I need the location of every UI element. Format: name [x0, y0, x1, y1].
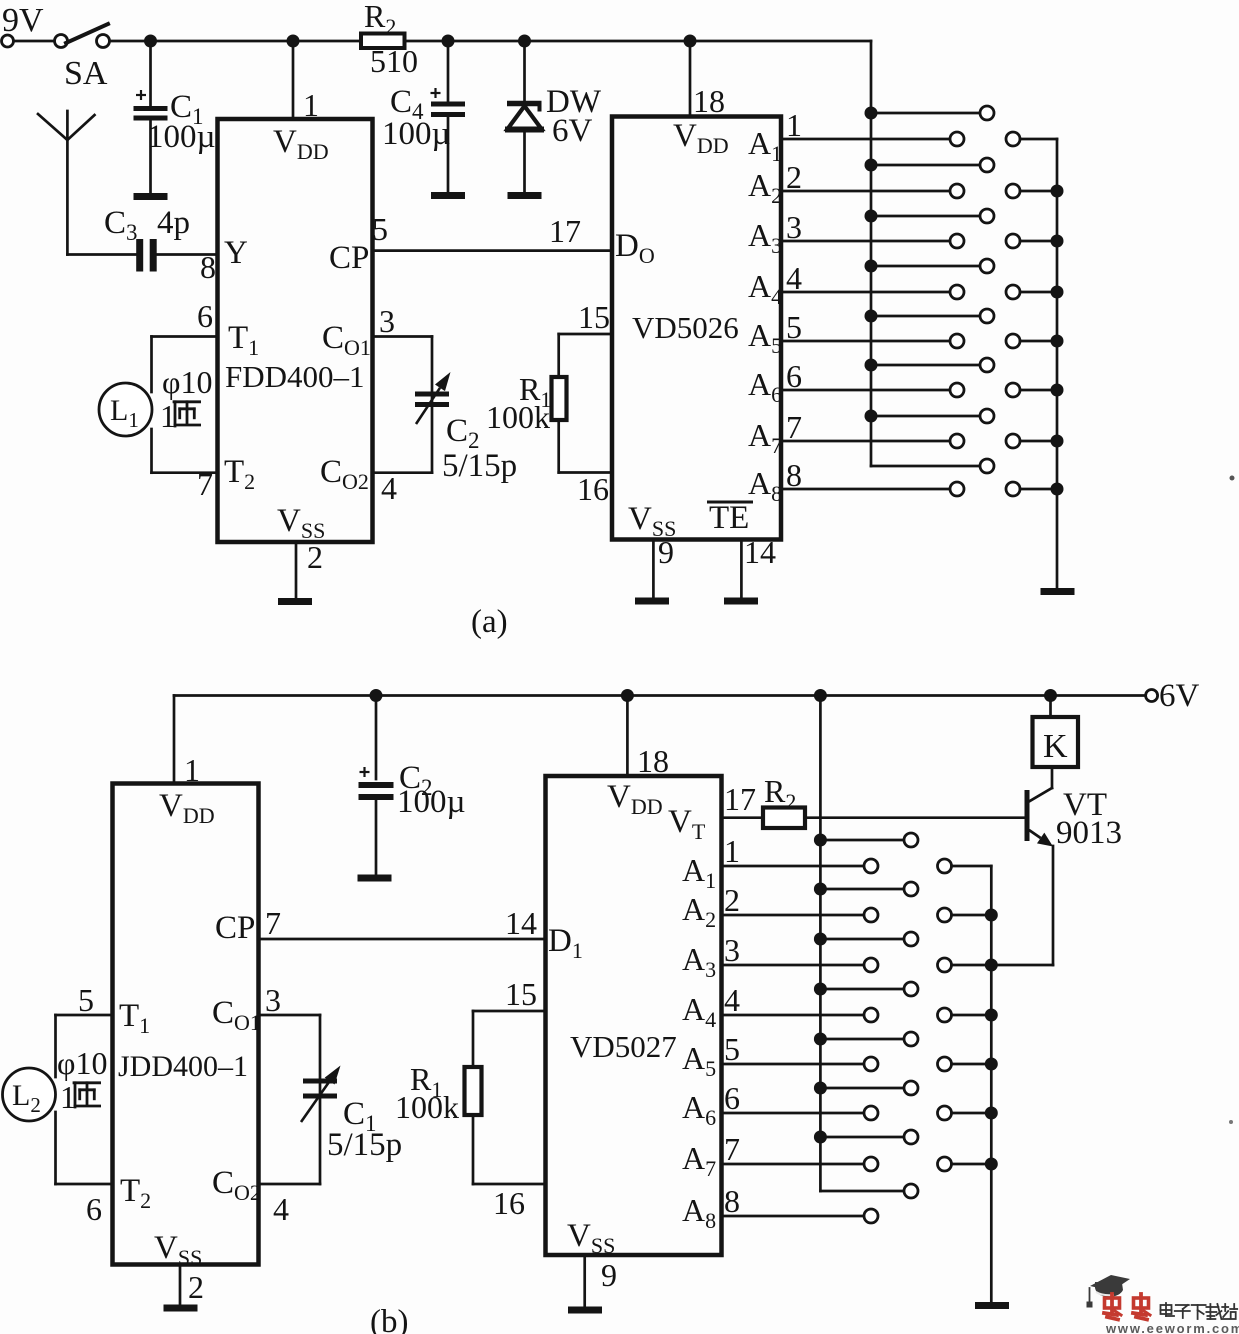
svg-text:8: 8 — [200, 249, 216, 285]
svg-text:6: 6 — [86, 1191, 102, 1227]
svg-text:6V: 6V — [1159, 678, 1200, 714]
svg-text:VD5027: VD5027 — [570, 1029, 677, 1064]
svg-text:2: 2 — [786, 159, 802, 195]
svg-text:(a): (a) — [471, 604, 508, 640]
svg-text:www.eeworm.com: www.eeworm.com — [1105, 1321, 1239, 1334]
svg-text:1: 1 — [724, 833, 740, 869]
svg-text:17: 17 — [724, 781, 756, 817]
svg-text:4p: 4p — [157, 205, 190, 241]
svg-text:100k: 100k — [486, 399, 550, 435]
svg-text:7: 7 — [724, 1131, 740, 1167]
svg-text:5: 5 — [78, 982, 94, 1018]
svg-text:4: 4 — [724, 982, 740, 1018]
svg-text:3: 3 — [379, 303, 395, 339]
svg-text:7: 7 — [197, 466, 213, 502]
svg-text:16: 16 — [493, 1185, 525, 1221]
svg-text:3: 3 — [265, 982, 281, 1018]
svg-text:15: 15 — [505, 976, 537, 1012]
svg-text:16: 16 — [577, 471, 609, 507]
svg-text:14: 14 — [744, 534, 776, 570]
svg-text:100µ: 100µ — [382, 116, 451, 152]
svg-text:Y: Y — [224, 235, 248, 271]
svg-text:8: 8 — [786, 457, 802, 493]
svg-text:18: 18 — [693, 83, 725, 119]
svg-text:1: 1 — [786, 107, 802, 143]
svg-text:JDD400–1: JDD400–1 — [118, 1050, 248, 1083]
svg-text:CP: CP — [329, 240, 369, 276]
svg-text:FDD400–1: FDD400–1 — [225, 359, 365, 394]
svg-text:4: 4 — [786, 260, 802, 296]
svg-text:5: 5 — [372, 211, 388, 247]
svg-text:3: 3 — [724, 932, 740, 968]
svg-text:SA: SA — [64, 55, 108, 92]
svg-text:TE: TE — [709, 500, 749, 536]
svg-text:14: 14 — [505, 905, 537, 941]
svg-text:1: 1 — [303, 87, 319, 123]
svg-text:CP: CP — [215, 910, 255, 946]
svg-text:100µ: 100µ — [397, 784, 466, 820]
svg-text:5/15p: 5/15p — [442, 448, 517, 484]
svg-text:φ10: φ10 — [162, 364, 212, 400]
svg-text:6: 6 — [786, 358, 802, 394]
svg-text:4: 4 — [381, 470, 397, 506]
svg-text:2: 2 — [307, 539, 323, 575]
svg-text:φ10: φ10 — [57, 1045, 107, 1081]
svg-text:6V: 6V — [552, 113, 593, 149]
svg-text:6: 6 — [724, 1080, 740, 1116]
svg-text:8: 8 — [724, 1183, 740, 1219]
svg-text:7: 7 — [265, 905, 281, 941]
svg-text:VD5026: VD5026 — [632, 310, 739, 345]
svg-text:9V: 9V — [2, 2, 44, 39]
svg-text:100µ: 100µ — [147, 119, 216, 155]
svg-text:6: 6 — [197, 298, 213, 334]
svg-text:2: 2 — [724, 882, 740, 918]
svg-text:15: 15 — [578, 299, 610, 335]
svg-text:K: K — [1043, 728, 1068, 765]
svg-text:3: 3 — [786, 209, 802, 245]
svg-text:17: 17 — [549, 213, 581, 249]
svg-text:5/15p: 5/15p — [327, 1127, 402, 1163]
svg-text:18: 18 — [637, 743, 669, 779]
svg-text:7: 7 — [786, 409, 802, 445]
svg-text:5: 5 — [724, 1031, 740, 1067]
svg-text:4: 4 — [273, 1191, 289, 1227]
svg-text:(b): (b) — [370, 1304, 408, 1334]
svg-text:9: 9 — [601, 1257, 617, 1293]
svg-text:2: 2 — [188, 1269, 204, 1305]
svg-text:9013: 9013 — [1056, 815, 1122, 851]
svg-text:100k: 100k — [395, 1089, 459, 1125]
svg-text:1: 1 — [184, 752, 200, 788]
svg-text:9: 9 — [658, 534, 674, 570]
svg-text:5: 5 — [786, 309, 802, 345]
svg-text:510: 510 — [370, 43, 418, 79]
